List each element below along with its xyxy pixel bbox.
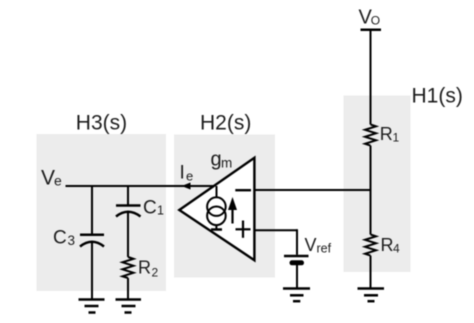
label Vref [305, 235, 332, 256]
ground (C3 branch) [79, 300, 105, 313]
svg-text:O: O [371, 14, 380, 28]
block H2(s) background [174, 135, 275, 278]
svg-text:R: R [380, 124, 393, 144]
wire Vo to R1 [370, 30, 372, 125]
label Ie [180, 163, 194, 184]
svg-text:R: R [381, 235, 394, 255]
label R1 [380, 124, 400, 145]
svg-text:V: V [305, 235, 317, 255]
wire Ve node to amplifier [66, 185, 218, 187]
wire inverting input to R1/R4 node [254, 189, 370, 191]
wire C1 to R2 [127, 213, 129, 257]
label C3 [53, 228, 75, 249]
svg-text:2: 2 [152, 266, 159, 280]
svg-text:e: e [54, 173, 62, 189]
svg-text:I: I [180, 163, 185, 184]
wire Vref to ground [296, 265, 298, 289]
wire R4 to ground [370, 256, 372, 289]
resistor R4 [365, 235, 376, 256]
svg-text:1: 1 [393, 131, 400, 145]
resistor R2 [123, 257, 134, 278]
svg-text:H1(s): H1(s) [412, 85, 463, 108]
resistor R1 [365, 125, 376, 146]
wire Ve node to C3 [91, 186, 93, 234]
wire R2 to ground [127, 278, 129, 300]
pin plus (non-inverting input) [236, 221, 251, 238]
block H3(s) background [37, 134, 167, 291]
svg-text:R: R [138, 258, 151, 278]
label C1 [143, 198, 164, 219]
svg-text:ref: ref [317, 242, 332, 256]
svg-text:3: 3 [68, 233, 76, 248]
wire current source stem and bar [211, 225, 222, 229]
wire non-inverting input to Vref [254, 229, 297, 255]
voltage source Vref (battery) [284, 256, 309, 263]
label gm [211, 149, 233, 171]
op-amp U1 (gm transconductance amplifier triangle) [179, 158, 254, 260]
current direction arrow [228, 197, 237, 224]
wire Ve node to C1 [127, 186, 129, 205]
svg-text:g: g [211, 149, 222, 171]
label R4 [381, 235, 401, 256]
capacitor C3 [80, 235, 104, 247]
wire C3 to ground [91, 242, 93, 300]
svg-text:C: C [53, 228, 67, 249]
capacitor C1 [116, 206, 141, 217]
svg-text:V: V [41, 167, 55, 190]
ground (Vref) [283, 289, 310, 302]
ground (R2 branch) [116, 300, 142, 313]
wire output tap to current source [216, 186, 218, 198]
terminal Vo [361, 29, 382, 32]
ground (R4) [358, 289, 385, 302]
svg-text:H3(s): H3(s) [76, 112, 127, 135]
current source I1 (two overlapping circles) [207, 197, 226, 225]
svg-text:1: 1 [157, 204, 164, 218]
node Ve label [41, 167, 62, 190]
pin minus (inverting input) [235, 189, 251, 191]
wire R1 to R4 node [370, 146, 372, 235]
svg-text:C: C [143, 198, 157, 219]
block H1(s) background [344, 96, 411, 273]
svg-text:4: 4 [393, 242, 400, 256]
svg-text:m: m [221, 156, 232, 171]
label R2 [138, 258, 159, 280]
svg-text:e: e [186, 169, 193, 184]
current Ie arrow [182, 183, 191, 190]
svg-text:H2(s): H2(s) [200, 112, 251, 135]
node Vo label [359, 7, 381, 29]
